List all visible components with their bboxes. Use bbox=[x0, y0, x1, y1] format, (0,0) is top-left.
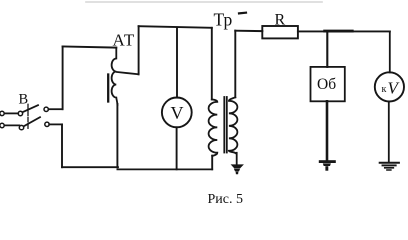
transformer Tr core bbox=[224, 97, 227, 153]
wire top-left horizontal bbox=[63, 47, 117, 48]
wire left riser down bbox=[61, 124, 63, 167]
svg-text:V: V bbox=[171, 103, 184, 123]
switch B pole1 pivot circle bbox=[18, 111, 22, 115]
ground (kilovoltmeter) bbox=[380, 163, 399, 170]
wire secondary bottom lead bbox=[236, 153, 238, 165]
wire secondary top riser bbox=[234, 31, 236, 98]
switch B mechanical link bbox=[27, 104, 29, 130]
ground (test object Ob) bbox=[319, 160, 336, 171]
voltmeter V body bbox=[162, 98, 192, 128]
svg-text:V: V bbox=[388, 78, 401, 97]
wire Ob bottom lead bbox=[326, 101, 329, 160]
autotransformer AT coil bbox=[112, 48, 118, 105]
svg-text:Рис. 5: Рис. 5 bbox=[208, 192, 244, 207]
switch B pole1 contact circle bbox=[44, 107, 48, 111]
wire pole1 right bbox=[48, 108, 62, 110]
switch B pole2 terminal circle bbox=[0, 123, 4, 127]
kilovoltmeter kV body bbox=[375, 72, 404, 101]
wire pole2 right bbox=[49, 123, 62, 125]
wire pole1 left bbox=[4, 112, 18, 114]
switch B pole1 terminal circle bbox=[0, 111, 4, 115]
wire kV top riser bbox=[389, 31, 391, 72]
polarity dash mark bbox=[239, 12, 246, 15]
svg-text:АТ: АТ bbox=[113, 31, 135, 50]
wire Tr primary riser bbox=[211, 28, 213, 100]
wire voltmeter branch top bbox=[176, 27, 178, 97]
ground (transformer secondary) bbox=[231, 164, 244, 174]
autotransformer AT core bar bbox=[107, 75, 109, 102]
svg-text:В: В bbox=[19, 92, 29, 108]
transformer Tr secondary winding bbox=[229, 97, 238, 153]
wire R to kV riser bbox=[298, 30, 390, 32]
wire bottom rail left bbox=[62, 166, 118, 168]
transformer Tr primary winding bbox=[209, 99, 218, 156]
wire primary bottom to rail bbox=[211, 156, 213, 170]
wire AT tap bbox=[117, 72, 139, 74]
switch B pole2 contact circle bbox=[45, 122, 49, 126]
wire to resistor R bbox=[235, 30, 262, 32]
wire pole2 left bbox=[4, 124, 19, 126]
wire tap riser bbox=[138, 26, 140, 74]
svg-text:Об: Об bbox=[317, 76, 336, 93]
wire bottom rail right bbox=[117, 168, 212, 170]
wire Ob branch riser bbox=[326, 31, 328, 67]
wire top bus bbox=[139, 26, 212, 28]
wire kV bottom lead bbox=[388, 102, 390, 163]
wire thick scan segment bbox=[325, 30, 353, 33]
scan artifact line (top) bbox=[86, 1, 322, 3]
wire AT bottom lead bbox=[116, 104, 118, 167]
switch B pole2 pivot circle bbox=[19, 125, 23, 129]
wire left riser up bbox=[62, 47, 64, 110]
wire voltmeter branch bottom bbox=[176, 127, 178, 169]
svg-text:Тр: Тр bbox=[214, 10, 233, 30]
svg-text:к: к bbox=[382, 84, 387, 95]
switch B pole1 blade bbox=[23, 105, 39, 112]
test object Ob body bbox=[311, 67, 345, 101]
resistor R body bbox=[262, 26, 298, 38]
switch B pole2 blade bbox=[24, 117, 40, 126]
